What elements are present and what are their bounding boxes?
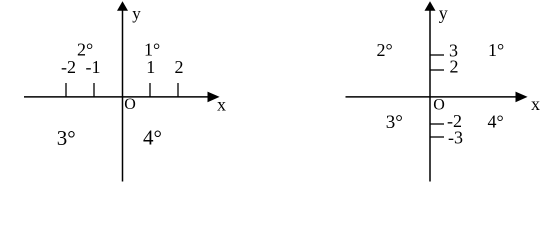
right diagram y-axis: [429, 8, 431, 182]
svg-text:2°: 2°: [77, 40, 93, 60]
left diagram tick 1: [149, 83, 151, 97]
svg-text:y: y: [132, 4, 141, 23]
right diagram y-axis arrowhead: [425, 1, 436, 11]
left diagram x-axis: [24, 96, 209, 98]
right diagram tick -3: [430, 136, 444, 138]
svg-text:4°: 4°: [488, 112, 504, 132]
svg-text:-1: -1: [86, 57, 101, 77]
left diagram y-axis arrowhead: [117, 1, 128, 11]
svg-text:O: O: [124, 96, 136, 113]
svg-text:2: 2: [175, 57, 184, 77]
svg-text:1°: 1°: [144, 40, 160, 60]
right diagram tick -2: [430, 123, 444, 125]
svg-text:x: x: [217, 95, 226, 115]
svg-text:O: O: [433, 96, 445, 113]
right diagram x-axis arrowhead: [516, 92, 528, 103]
svg-text:x: x: [531, 94, 540, 114]
svg-text:1°: 1°: [488, 40, 504, 60]
svg-text:2: 2: [450, 57, 459, 77]
left diagram y-axis: [122, 8, 124, 182]
left diagram tick -2: [65, 83, 67, 97]
right diagram tick 3: [430, 54, 444, 56]
right diagram tick 2: [430, 69, 444, 71]
svg-text:3°: 3°: [386, 112, 403, 133]
left diagram tick 2: [177, 83, 179, 97]
svg-text:-3: -3: [448, 128, 463, 148]
svg-text:-2: -2: [61, 57, 76, 77]
svg-text:y: y: [439, 3, 448, 23]
left diagram tick -1: [93, 83, 95, 97]
svg-text:1: 1: [146, 57, 155, 77]
svg-text:3°: 3°: [57, 126, 76, 150]
svg-text:2°: 2°: [377, 40, 393, 60]
svg-text:4°: 4°: [143, 126, 162, 150]
left diagram x-axis arrowhead: [208, 92, 220, 103]
right diagram x-axis: [346, 96, 518, 98]
